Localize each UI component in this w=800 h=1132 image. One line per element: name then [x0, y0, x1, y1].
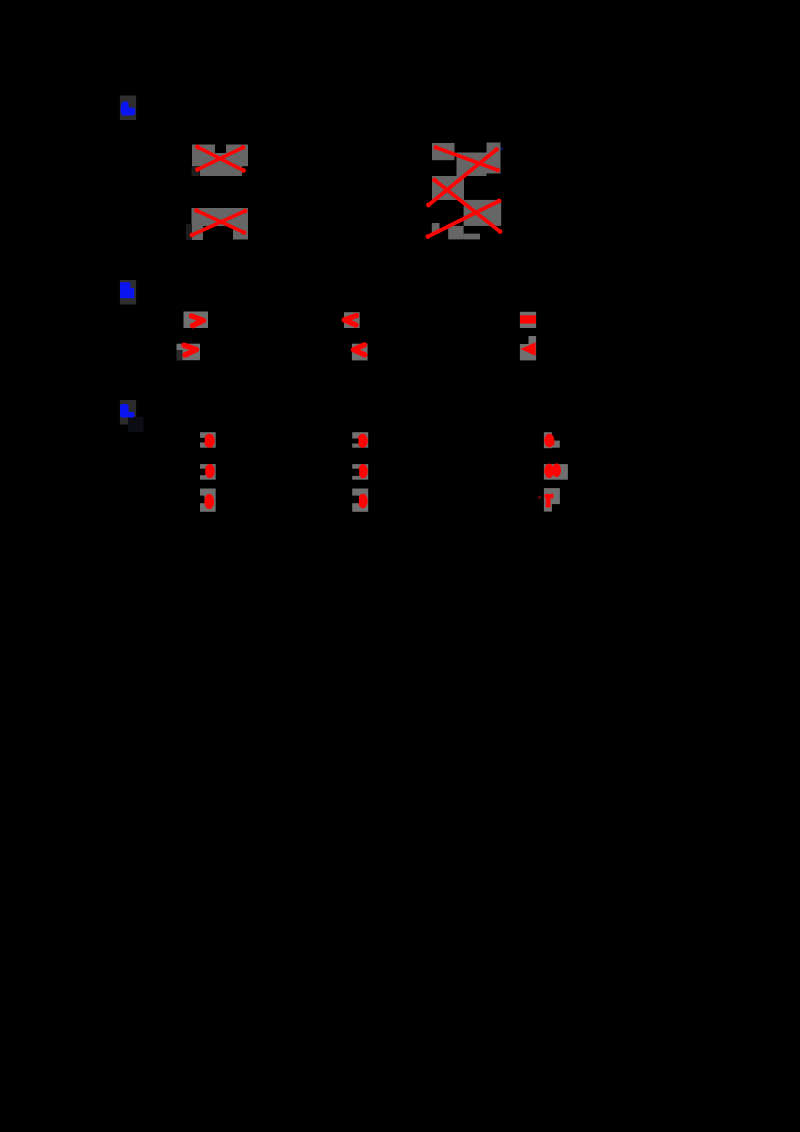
row2 col2 blob 1: gray block: [352, 432, 368, 448]
faint smudge left of X2: [186, 224, 192, 240]
row1 col1 mark b: red chevron right: [184, 345, 197, 355]
row2 col3 mark 2: gray block: [544, 464, 568, 480]
red X mark X1: [195, 145, 246, 173]
row2 col3 mark 1: gray blocks: [544, 432, 552, 448]
gray text block under X1: [192, 145, 248, 177]
row1 col1 mark b: dark left part: [177, 350, 183, 360]
row2 col3 mark 3: gray blocks: [544, 488, 560, 504]
row2 col1 blob 3: notch: [200, 496, 205, 504]
row2 col2 blob 3: red blob: [358, 494, 368, 508]
row1 col1 mark b: gray block: [177, 344, 201, 361]
red X mark X2: [190, 208, 248, 237]
row1 col1 mark a: gray block: [184, 312, 209, 329]
blue mark 3 halo: [120, 400, 136, 425]
row1 col2 mark b: gray block: [352, 344, 368, 361]
row2 col2 blob 2: gray block: [352, 464, 368, 480]
row2 col1 blob 1: notch: [200, 438, 205, 443]
row1 col3 mark a: red bar: [520, 315, 536, 323]
row2 col1 blob 2: gray block: [200, 464, 216, 480]
blue mark 1: [120, 101, 135, 115]
row2 col1 blob 2: notch: [200, 469, 206, 476]
blue mark 2 halo: [120, 280, 136, 305]
row2 col1 blob 3: gray block: [200, 489, 216, 512]
row2 col3 mark 2: red double blob: [544, 464, 554, 478]
row2 col2 blob 3: gray block: [352, 489, 368, 512]
tiny blue speck near right cluster: [501, 148, 504, 151]
row1 col3 mark b: gray blocks: [529, 336, 537, 344]
row2 col2 blob 2: red blob: [358, 464, 368, 478]
blue mark 1 halo: [120, 96, 136, 121]
row2 col1 blob 3: red blob: [204, 494, 214, 509]
row1 col2 mark b: red chevron left: [354, 345, 365, 355]
gray text block under right X cluster: [432, 143, 501, 240]
row2 col1 blob 1: gray block: [200, 432, 216, 448]
row2 col3 mark 3: red seven shape: [545, 494, 554, 498]
row1 col2 mark a: red chevron left: [344, 316, 356, 326]
row1 col3 mark a: gray block: [520, 312, 536, 328]
red triple-X scribble (right cluster): [426, 145, 503, 239]
row2 col2 blob 3: notch: [352, 496, 359, 504]
row1 col3 mark b: red left triangle: [520, 342, 535, 355]
row2 col2 blob 1: notch: [352, 439, 358, 444]
row2 col3 mark 3: faint red speck: [538, 496, 541, 499]
faint smudge below X1: [192, 167, 200, 177]
row2 col2 blob 2: notch: [352, 469, 359, 476]
blue mark 2: [120, 282, 134, 298]
row2 col1 blob 2: red blob: [205, 464, 215, 478]
row2 col2 blob 1: red blob: [357, 434, 367, 448]
blue mark 3: [120, 404, 135, 418]
row1 col1 mark a: red chevron right: [192, 316, 204, 326]
blue mark 3 dark tail: [128, 417, 143, 432]
row2 col1 blob 1: red blob: [204, 434, 215, 448]
row1 col2 mark a: gray block: [344, 312, 360, 328]
gray text block under X2: [192, 208, 249, 240]
row2 col3 mark 1: red blob: [544, 434, 554, 448]
